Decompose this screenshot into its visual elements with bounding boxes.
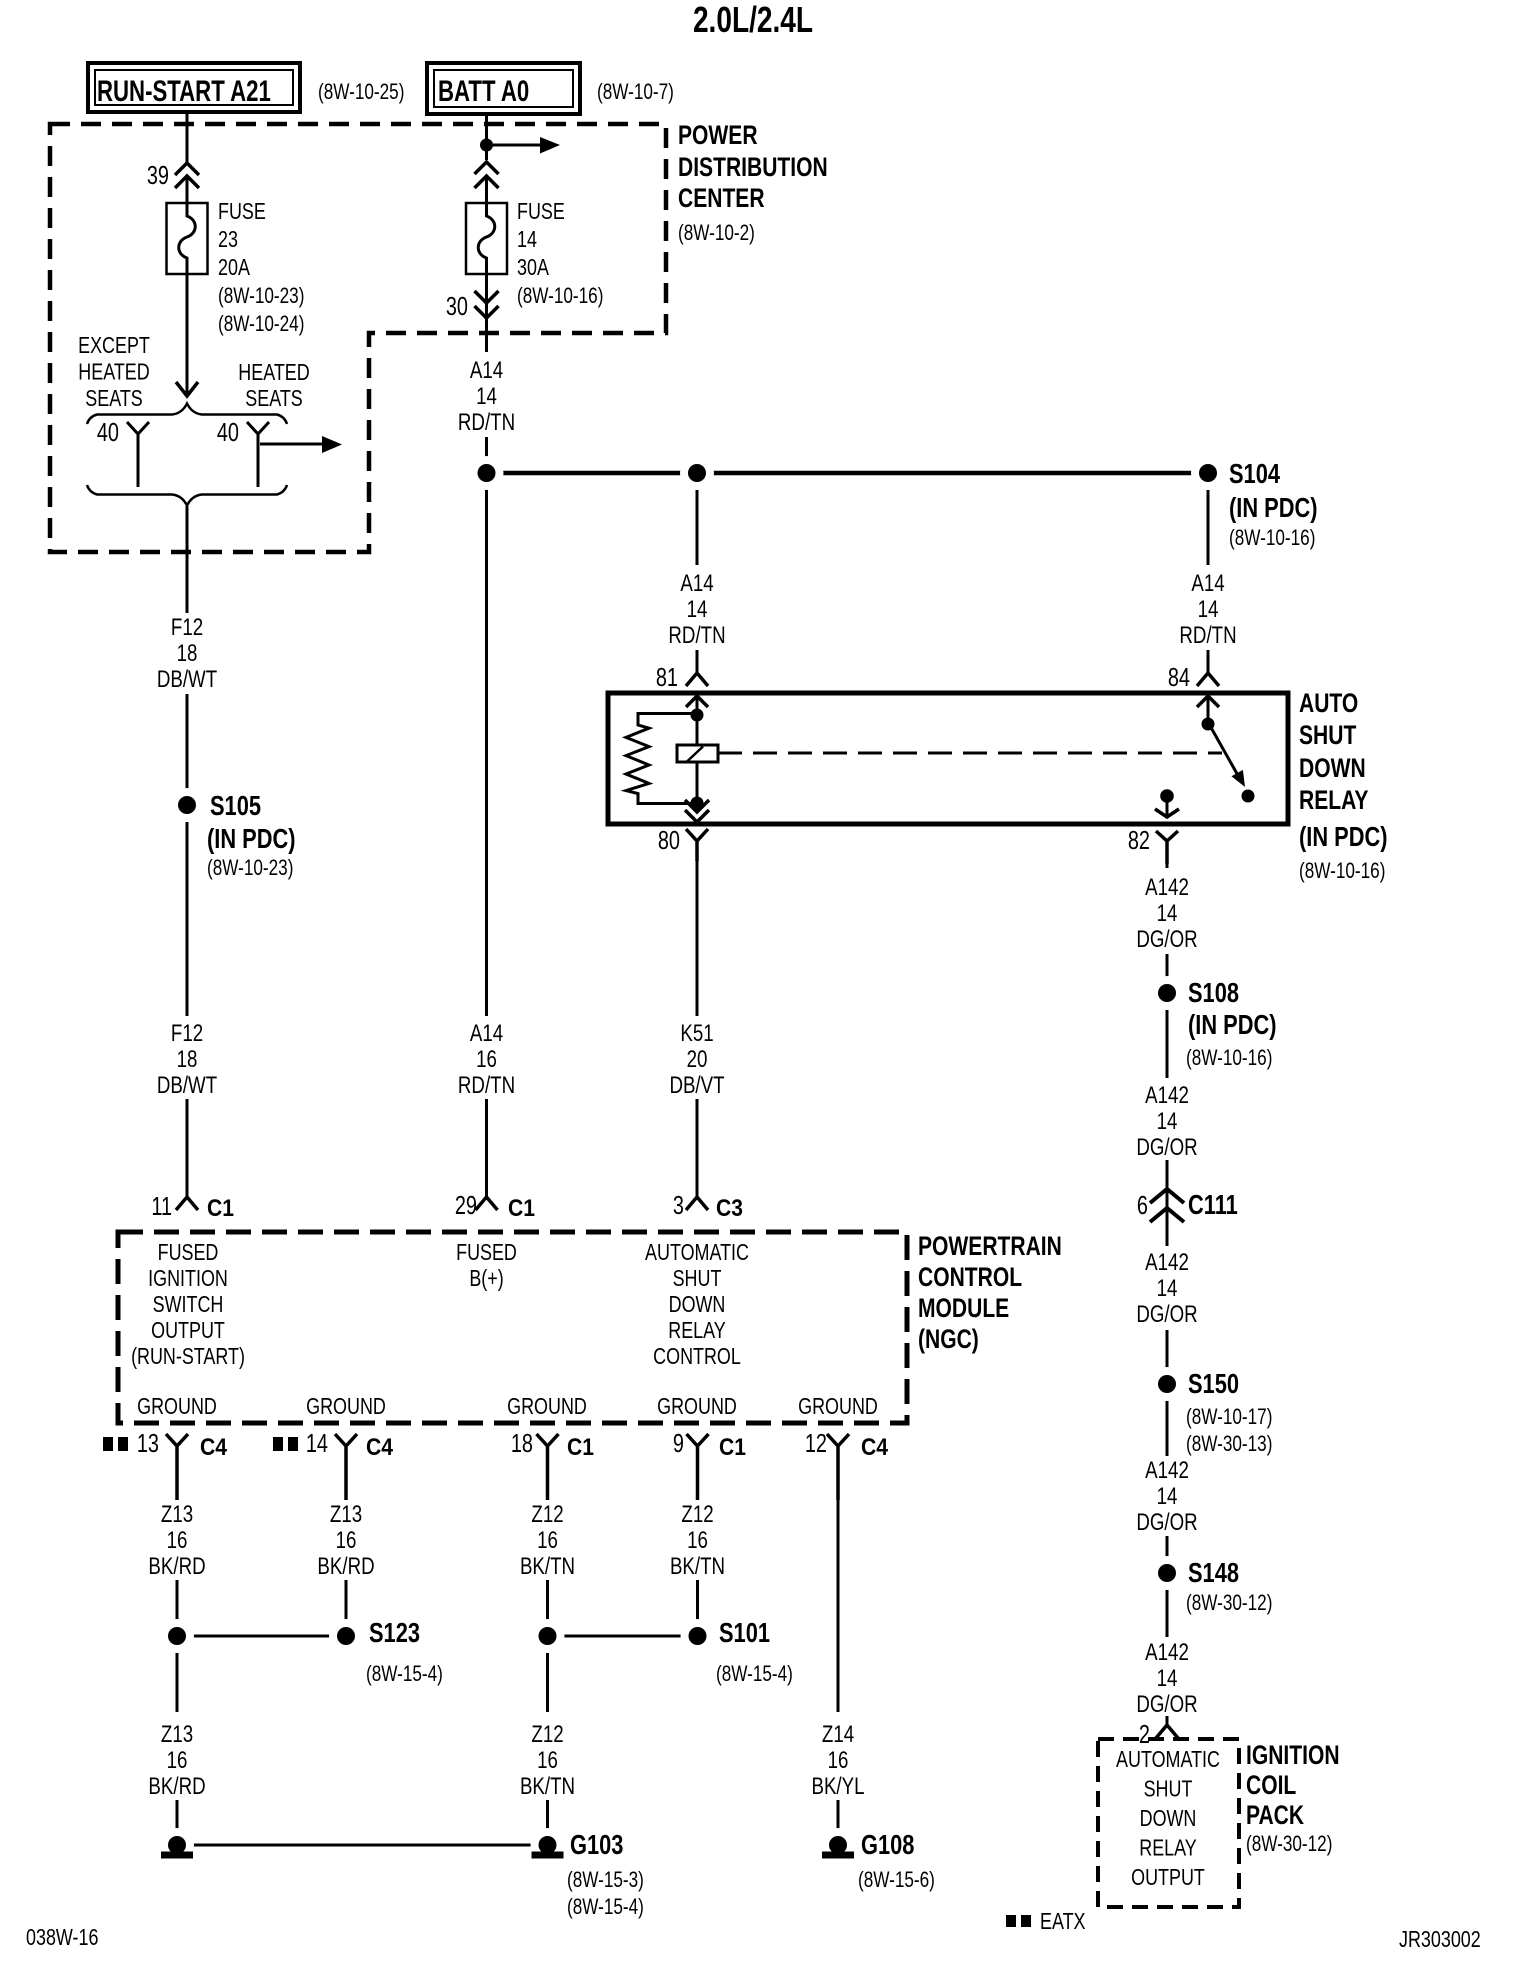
svg-text:(8W-15-3): (8W-15-3) bbox=[567, 1868, 644, 1893]
svg-text:(8W-15-4): (8W-15-4) bbox=[567, 1895, 644, 1920]
connector pin 9 C1 bbox=[673, 1429, 746, 1500]
svg-text:EATX: EATX bbox=[1040, 1909, 1086, 1935]
label IGNITION COIL PACK bbox=[1246, 1741, 1340, 1857]
relay switch wire from pin 84 bbox=[1207, 696, 1210, 724]
wire A14 to bus bbox=[485, 437, 488, 473]
svg-text:S150: S150 bbox=[1188, 1368, 1239, 1399]
relay coil symbol bbox=[677, 745, 718, 762]
svg-text:POWERTRAIN: POWERTRAIN bbox=[918, 1232, 1062, 1262]
svg-text:POWER: POWER bbox=[678, 121, 758, 151]
svg-text:C1: C1 bbox=[567, 1434, 594, 1461]
svg-text:(8W-10-16): (8W-10-16) bbox=[1229, 526, 1315, 551]
wire S123 horizontal bbox=[177, 1635, 346, 1638]
svg-text:F12: F12 bbox=[171, 614, 203, 641]
svg-text:2: 2 bbox=[1139, 1720, 1150, 1749]
svg-text:A14: A14 bbox=[1191, 570, 1224, 597]
wire connector 30 through PDC edge bbox=[485, 318, 488, 352]
wire brace to F12 label bbox=[186, 506, 189, 613]
svg-text:3: 3 bbox=[673, 1191, 684, 1220]
svg-text:S108: S108 bbox=[1188, 977, 1239, 1008]
svg-text:S101: S101 bbox=[719, 1617, 770, 1648]
connector pin 18 C1 bbox=[511, 1429, 594, 1500]
svg-text:14: 14 bbox=[517, 227, 537, 253]
wire bus down to relay pin 81 (upper) bbox=[696, 473, 699, 565]
splice S123 bbox=[329, 1617, 443, 1686]
connector pin 80 bbox=[658, 826, 708, 861]
svg-text:(8W-10-17): (8W-10-17) bbox=[1186, 1405, 1272, 1430]
wire pin 13 to splice row bbox=[176, 1580, 179, 1636]
svg-text:F12: F12 bbox=[171, 1020, 203, 1047]
svg-text:BK/TN: BK/TN bbox=[520, 1773, 575, 1800]
svg-text:C4: C4 bbox=[861, 1434, 888, 1461]
svg-text:Z12: Z12 bbox=[531, 1721, 563, 1748]
svg-text:RELAY: RELAY bbox=[1299, 786, 1368, 816]
svg-text:18: 18 bbox=[177, 1046, 198, 1073]
svg-text:RD/TN: RD/TN bbox=[458, 409, 515, 436]
svg-text:14: 14 bbox=[306, 1429, 328, 1458]
splice S101 bbox=[681, 1617, 793, 1686]
svg-text:A142: A142 bbox=[1145, 1457, 1189, 1484]
svg-text:G108: G108 bbox=[861, 1829, 914, 1860]
connector pin 11 C1 bbox=[151, 1192, 234, 1222]
svg-text:(8W-10-2): (8W-10-2) bbox=[678, 221, 755, 246]
svg-text:C1: C1 bbox=[719, 1434, 746, 1461]
svg-text:23: 23 bbox=[218, 227, 238, 253]
splice S148 bbox=[1150, 1556, 1272, 1616]
svg-text:FUSED: FUSED bbox=[158, 1240, 219, 1266]
svg-text:B(+): B(+) bbox=[469, 1266, 503, 1292]
svg-text:(8W-15-4): (8W-15-4) bbox=[366, 1662, 443, 1687]
svg-text:DG/OR: DG/OR bbox=[1136, 1301, 1197, 1328]
svg-text:(IN PDC): (IN PDC) bbox=[1188, 1009, 1277, 1040]
wire F12 to PCM pin 11 bbox=[186, 1099, 189, 1197]
wire pin 12 down bbox=[837, 1446, 840, 1712]
relay pin 82 wire and chevron bbox=[1166, 796, 1169, 815]
svg-text:SEATS: SEATS bbox=[245, 386, 302, 412]
svg-text:A142: A142 bbox=[1145, 1082, 1189, 1109]
svg-text:40: 40 bbox=[97, 418, 119, 447]
svg-text:(8W-10-7): (8W-10-7) bbox=[597, 80, 674, 105]
ground terminal (left) bbox=[160, 1828, 194, 1862]
svg-text:DOWN: DOWN bbox=[669, 1292, 726, 1318]
svg-text:(8W-10-23): (8W-10-23) bbox=[207, 856, 293, 881]
label POWER DISTRIBUTION CENTER bbox=[678, 121, 828, 246]
wire bus down to PCM pin 29 bbox=[485, 473, 488, 1016]
svg-text:BK/YL: BK/YL bbox=[811, 1773, 864, 1800]
relay K1 auto shut down relay box bbox=[608, 693, 1288, 824]
svg-text:(8W-10-24): (8W-10-24) bbox=[218, 312, 304, 337]
wire pin 14 to S123 bbox=[345, 1580, 348, 1636]
svg-text:9: 9 bbox=[673, 1429, 684, 1458]
svg-text:DG/OR: DG/OR bbox=[1136, 1509, 1197, 1536]
connector pin 81 bbox=[656, 663, 708, 692]
splice bus split brace (top) bbox=[87, 404, 287, 425]
svg-text:IGNITION: IGNITION bbox=[148, 1266, 228, 1292]
svg-text:C1: C1 bbox=[207, 1195, 234, 1222]
svg-text:RD/TN: RD/TN bbox=[458, 1072, 515, 1099]
svg-text:A14: A14 bbox=[470, 357, 503, 384]
relay coil wire pin 81 to pin 80 bbox=[696, 696, 699, 813]
svg-text:16: 16 bbox=[537, 1527, 558, 1554]
fuse 23 20A bbox=[167, 199, 305, 337]
svg-text:(8W-30-13): (8W-30-13) bbox=[1186, 1432, 1272, 1457]
svg-text:(8W-30-12): (8W-30-12) bbox=[1246, 1832, 1332, 1857]
connector pin 2 (ignition coil pack) bbox=[1139, 1720, 1178, 1749]
svg-text:PACK: PACK bbox=[1246, 1801, 1305, 1831]
svg-text:BK/TN: BK/TN bbox=[670, 1553, 725, 1580]
svg-text:DB/WT: DB/WT bbox=[157, 1072, 217, 1099]
wire pin 9 to S101 bbox=[696, 1580, 699, 1636]
svg-text:CONTROL: CONTROL bbox=[918, 1263, 1022, 1293]
svg-text:16: 16 bbox=[687, 1527, 708, 1554]
label POWERTRAIN CONTROL MODULE (NGC) bbox=[918, 1232, 1062, 1355]
connector pin 39 bbox=[147, 161, 199, 190]
svg-text:AUTO: AUTO bbox=[1299, 689, 1358, 719]
svg-text:20A: 20A bbox=[218, 255, 250, 281]
junction dot Z13 bbox=[160, 1619, 194, 1653]
wire BATT box down bbox=[485, 114, 488, 160]
svg-text:DOWN: DOWN bbox=[1299, 754, 1366, 784]
svg-text:14: 14 bbox=[1157, 1108, 1178, 1135]
svg-text:OUTPUT: OUTPUT bbox=[1131, 1865, 1205, 1891]
svg-text:Z13: Z13 bbox=[161, 1721, 193, 1748]
svg-text:A14: A14 bbox=[680, 570, 713, 597]
splice S108 (IN PDC) bbox=[1150, 976, 1277, 1071]
svg-text:JR303002: JR303002 bbox=[1399, 1927, 1481, 1953]
svg-text:Z13: Z13 bbox=[161, 1501, 193, 1528]
connector pin 40 (except heated seats) bbox=[97, 418, 149, 487]
svg-text:038W-16: 038W-16 bbox=[26, 1925, 98, 1951]
relay switch arm with arrow bbox=[1209, 724, 1240, 779]
wire to S148 bbox=[1166, 1536, 1169, 1637]
svg-text:A142: A142 bbox=[1145, 1249, 1189, 1276]
svg-text:16: 16 bbox=[828, 1747, 849, 1774]
power distribution center dashed outline bbox=[50, 124, 666, 552]
svg-text:(8W-10-25): (8W-10-25) bbox=[318, 80, 404, 105]
svg-text:80: 80 bbox=[658, 826, 680, 855]
svg-text:S123: S123 bbox=[369, 1617, 420, 1648]
svg-text:82: 82 bbox=[1128, 826, 1150, 855]
wire Z13 down to ground bus bbox=[176, 1636, 179, 1712]
svg-text:(IN PDC): (IN PDC) bbox=[1299, 821, 1388, 852]
svg-text:A142: A142 bbox=[1145, 874, 1189, 901]
svg-text:14: 14 bbox=[1157, 1483, 1178, 1510]
svg-text:K51: K51 bbox=[680, 1020, 713, 1047]
svg-text:DG/OR: DG/OR bbox=[1136, 926, 1197, 953]
junction dot bus middle bbox=[680, 456, 714, 490]
svg-text:EXCEPT: EXCEPT bbox=[78, 333, 150, 359]
svg-text:MODULE: MODULE bbox=[918, 1294, 1009, 1324]
svg-text:14: 14 bbox=[1157, 900, 1178, 927]
fuse 14 30A bbox=[466, 199, 603, 309]
svg-text:14: 14 bbox=[1157, 1275, 1178, 1302]
svg-text:(IN PDC): (IN PDC) bbox=[1229, 492, 1318, 523]
svg-text:A142: A142 bbox=[1145, 1639, 1189, 1666]
svg-text:18: 18 bbox=[177, 640, 198, 667]
wire pin 18 to splice row bbox=[546, 1580, 549, 1636]
wire chevron to fuse 14 bbox=[485, 176, 488, 203]
svg-text:Z12: Z12 bbox=[681, 1501, 713, 1528]
svg-text:14: 14 bbox=[1157, 1665, 1178, 1692]
svg-text:16: 16 bbox=[476, 1046, 497, 1073]
svg-text:IGNITION: IGNITION bbox=[1246, 1741, 1340, 1771]
svg-text:RUN-START A21: RUN-START A21 bbox=[97, 74, 271, 108]
svg-text:OUTPUT: OUTPUT bbox=[151, 1318, 225, 1344]
connector (battery feed) double chevron bbox=[475, 162, 499, 174]
svg-text:14: 14 bbox=[1198, 596, 1219, 623]
splice S150 bbox=[1150, 1367, 1272, 1457]
junction dot Z12 bbox=[531, 1619, 565, 1653]
junction dot coil bottom bbox=[691, 797, 704, 810]
svg-text:BK/RD: BK/RD bbox=[148, 1773, 205, 1800]
svg-text:84: 84 bbox=[1168, 663, 1190, 692]
svg-text:(8W-10-16): (8W-10-16) bbox=[517, 284, 603, 309]
svg-text:GROUND: GROUND bbox=[798, 1394, 878, 1420]
svg-text:SHUT: SHUT bbox=[673, 1266, 722, 1292]
svg-text:(NGC): (NGC) bbox=[918, 1325, 979, 1355]
svg-text:C4: C4 bbox=[366, 1434, 393, 1461]
svg-text:SHUT: SHUT bbox=[1144, 1776, 1193, 1802]
svg-text:BK/RD: BK/RD bbox=[317, 1553, 374, 1580]
svg-text:(8W-10-16): (8W-10-16) bbox=[1299, 859, 1385, 884]
svg-text:BK/TN: BK/TN bbox=[520, 1553, 575, 1580]
svg-text:RELAY: RELAY bbox=[1139, 1835, 1197, 1861]
svg-text:39: 39 bbox=[147, 161, 169, 190]
svg-text:GROUND: GROUND bbox=[657, 1394, 737, 1420]
svg-text:FUSED: FUSED bbox=[456, 1240, 517, 1266]
svg-text:(IN PDC): (IN PDC) bbox=[207, 823, 296, 854]
svg-text:SWITCH: SWITCH bbox=[153, 1292, 224, 1318]
junction dot coil top bbox=[691, 709, 704, 722]
svg-text:C1: C1 bbox=[508, 1195, 535, 1222]
svg-text:12: 12 bbox=[805, 1429, 827, 1458]
svg-text:FUSE: FUSE bbox=[517, 199, 565, 225]
relay pin 81 male chevron bbox=[686, 696, 708, 707]
svg-text:FUSE: FUSE bbox=[218, 199, 266, 225]
connector pin 13 C4 bbox=[137, 1429, 228, 1500]
svg-text:16: 16 bbox=[167, 1747, 188, 1774]
svg-text:CENTER: CENTER bbox=[678, 184, 765, 214]
svg-text:DB/WT: DB/WT bbox=[157, 666, 217, 693]
connector pin 29 C1 bbox=[455, 1191, 535, 1222]
relay switch normally-open contact bbox=[1242, 790, 1255, 803]
ground G103 bbox=[531, 1828, 644, 1920]
svg-text:30: 30 bbox=[446, 292, 468, 321]
svg-text:(8W-15-6): (8W-15-6) bbox=[858, 1868, 935, 1893]
svg-text:S104: S104 bbox=[1229, 458, 1280, 489]
svg-text:A14: A14 bbox=[470, 1020, 503, 1047]
svg-text:Z14: Z14 bbox=[822, 1721, 854, 1748]
connector pin 3 C3 bbox=[673, 1191, 743, 1222]
wire to S150 bbox=[1166, 1330, 1169, 1456]
connector pin 40 (heated seats) bbox=[217, 418, 269, 487]
svg-text:HEATED: HEATED bbox=[78, 359, 149, 385]
svg-text:81: 81 bbox=[656, 663, 678, 692]
EATX marker pin 14 bbox=[273, 1437, 283, 1451]
svg-text:C111: C111 bbox=[1188, 1189, 1238, 1220]
svg-text:(8W-10-23): (8W-10-23) bbox=[218, 284, 304, 309]
splice S105 bbox=[170, 788, 296, 881]
svg-text:C4: C4 bbox=[200, 1434, 227, 1461]
relay pin 84 male chevron bbox=[1197, 696, 1219, 707]
svg-text:GROUND: GROUND bbox=[507, 1394, 587, 1420]
node BATT A0 feed box bbox=[427, 63, 580, 114]
svg-text:16: 16 bbox=[167, 1527, 188, 1554]
resistor (relay coil suppression) bbox=[626, 714, 697, 804]
wire RUN-START box to connector 39 bbox=[186, 112, 189, 162]
EATX legend bbox=[1006, 1909, 1086, 1935]
junction dot at BATT feed bbox=[480, 139, 493, 152]
wire fuse 23 down to split arrow bbox=[186, 274, 189, 394]
svg-text:DG/OR: DG/OR bbox=[1136, 1134, 1197, 1161]
svg-text:16: 16 bbox=[336, 1527, 357, 1554]
svg-text:DB/VT: DB/VT bbox=[669, 1072, 724, 1099]
splice S104 (IN PDC) bbox=[1191, 456, 1318, 551]
svg-text:S148: S148 bbox=[1188, 1557, 1239, 1588]
svg-text:Z12: Z12 bbox=[531, 1501, 563, 1528]
svg-text:SEATS: SEATS bbox=[85, 386, 142, 412]
svg-text:2.0L/2.4L: 2.0L/2.4L bbox=[693, 0, 813, 40]
svg-text:HEATED: HEATED bbox=[238, 360, 309, 386]
wire S101 horizontal bbox=[548, 1635, 698, 1638]
svg-text:40: 40 bbox=[217, 418, 239, 447]
svg-text:DOWN: DOWN bbox=[1140, 1806, 1197, 1832]
svg-text:16: 16 bbox=[537, 1747, 558, 1774]
connector pin 84 bbox=[1168, 663, 1219, 692]
wire S104 down to relay pin 84 (upper) bbox=[1207, 473, 1210, 565]
label AUTO SHUT DOWN RELAY bbox=[1299, 689, 1388, 884]
junction dot bus left bbox=[470, 456, 504, 490]
arrow to heated seats circuit bbox=[260, 443, 324, 446]
ground bus wire to G103 bbox=[177, 1844, 548, 1847]
svg-text:(8W-10-16): (8W-10-16) bbox=[1186, 1046, 1272, 1071]
svg-text:GROUND: GROUND bbox=[137, 1394, 217, 1420]
wire fuse 14 to connector 30 bbox=[485, 274, 488, 318]
ignition coil pack dashed box bbox=[1098, 1739, 1239, 1907]
relay actuation dashed link bbox=[718, 752, 1222, 755]
svg-text:BK/RD: BK/RD bbox=[148, 1553, 205, 1580]
arrow BATT feed to other circuits bbox=[487, 144, 541, 147]
svg-text:COIL: COIL bbox=[1246, 1771, 1296, 1801]
connector pin 30 bbox=[446, 291, 499, 321]
svg-text:RELAY: RELAY bbox=[668, 1318, 726, 1344]
connector pin 12 C4 bbox=[805, 1429, 889, 1500]
svg-text:20: 20 bbox=[687, 1046, 708, 1073]
svg-text:BATT A0: BATT A0 bbox=[438, 74, 529, 108]
relay pin 82 contact dot bbox=[1160, 789, 1174, 803]
svg-text:S105: S105 bbox=[210, 790, 261, 821]
relay switch common contact bbox=[1202, 718, 1215, 731]
svg-text:CONTROL: CONTROL bbox=[653, 1344, 741, 1370]
bus wire A14 horizontal bbox=[487, 471, 1209, 476]
svg-text:29: 29 bbox=[455, 1191, 477, 1220]
svg-text:13: 13 bbox=[137, 1429, 159, 1458]
relay pin 80 double chevron bbox=[685, 800, 709, 812]
wire relay pin 80 to PCM pin 3 bbox=[696, 861, 699, 1016]
powertrain control module dashed box bbox=[118, 1232, 907, 1423]
svg-text:(8W-15-4): (8W-15-4) bbox=[716, 1662, 793, 1687]
svg-text:(8W-30-12): (8W-30-12) bbox=[1186, 1591, 1272, 1616]
wire to connector C111 bbox=[1166, 1160, 1169, 1246]
svg-text:Z13: Z13 bbox=[330, 1501, 362, 1528]
svg-text:DG/OR: DG/OR bbox=[1136, 1691, 1197, 1718]
svg-text:SHUT: SHUT bbox=[1299, 721, 1356, 751]
svg-text:C3: C3 bbox=[716, 1195, 743, 1222]
svg-text:RD/TN: RD/TN bbox=[1179, 622, 1236, 649]
svg-text:DISTRIBUTION: DISTRIBUTION bbox=[678, 153, 828, 183]
connector pin 82 bbox=[1128, 826, 1178, 864]
EATX marker pin 13 bbox=[103, 1437, 113, 1451]
connector pin 6 C111 bbox=[1137, 1189, 1238, 1222]
svg-text:30A: 30A bbox=[517, 255, 549, 281]
svg-text:GROUND: GROUND bbox=[306, 1394, 386, 1420]
svg-text:RD/TN: RD/TN bbox=[668, 622, 725, 649]
wire to ignition coil pack bbox=[1166, 1716, 1169, 1725]
svg-text:AUTOMATIC: AUTOMATIC bbox=[1116, 1747, 1220, 1773]
node RUN-START A21 feed box bbox=[88, 63, 300, 112]
svg-text:(RUN-START): (RUN-START) bbox=[131, 1344, 245, 1370]
splice bus rejoin brace (bottom) bbox=[87, 485, 287, 506]
svg-text:AUTOMATIC: AUTOMATIC bbox=[645, 1240, 749, 1266]
svg-text:G103: G103 bbox=[570, 1829, 623, 1860]
wire connector 39 to fuse 23 bbox=[186, 177, 189, 203]
svg-text:18: 18 bbox=[511, 1429, 533, 1458]
svg-text:14: 14 bbox=[687, 596, 708, 623]
connector pin 14 C4 bbox=[306, 1429, 394, 1500]
wire F12 to S105 and down bbox=[186, 694, 189, 1016]
ground G108 bbox=[821, 1828, 935, 1893]
svg-text:6: 6 bbox=[1137, 1191, 1148, 1220]
wire relay pin 82 to S108 bbox=[1166, 861, 1169, 868]
wire Z12 down to G103 bbox=[546, 1636, 549, 1712]
svg-text:11: 11 bbox=[151, 1192, 172, 1221]
svg-text:14: 14 bbox=[476, 383, 497, 410]
